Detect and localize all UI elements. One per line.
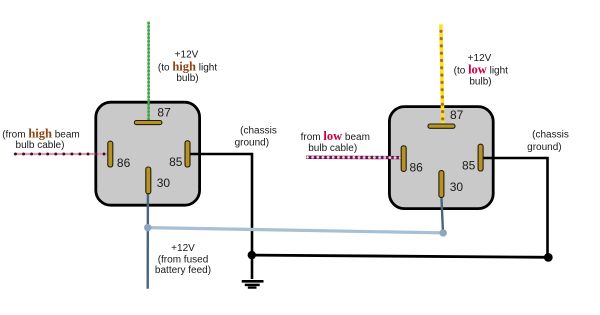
label: from low beam bulb cable [301,129,370,154]
svg-text:from low beam: from low beam [301,129,370,143]
wire: +12V feed bus (light blue horizontal) [148,228,444,233]
junction ground-left [248,251,256,259]
wire: K1 pin85 to chassis ground [189,154,252,279]
wire: K1 pin87 to high-beam bulb (green dashed) [148,22,150,121]
relay K1 (high beam) body [96,102,200,205]
wire: K2 pin30 drop (dark blue vertical) [441,196,443,233]
K1 pin 87 terminal [134,121,162,125]
label: +12V to high light bulb [158,50,217,85]
svg-text:(to low light: (to low light [454,63,509,77]
svg-text:(to high light: (to high light [158,60,217,74]
junction ground-right [544,253,553,262]
K2 pin 85 terminal [478,144,483,171]
svg-text:(from high beam: (from high beam [2,127,80,141]
svg-text:battery feed): battery feed) [155,265,211,276]
svg-text:(chassis: (chassis [532,129,569,140]
K2 pin 86 terminal [401,146,406,172]
svg-text:+12V: +12V [171,243,195,254]
wire: K1 pin30 battery feed (dark blue vertical) [146,193,149,289]
svg-text:85: 85 [462,159,476,173]
svg-text:86: 86 [410,161,424,175]
svg-text:ground): ground) [235,138,269,149]
svg-text:30: 30 [157,176,171,190]
label: +12V from fused battery feed [155,243,211,276]
svg-text:86: 86 [117,156,131,170]
label: from high beam bulb cable [2,127,80,151]
wire: from low beam bulb cable to K2 pin86 (purple w/ peach dots) [306,156,402,159]
svg-text:ground): ground) [527,142,561,153]
K2 pin 30 terminal [439,171,444,198]
junction feed-right [440,229,447,236]
label: +12V to low light bulb [454,53,509,88]
wire: K2 pin87 to low-beam bulb (yellow dotted) [439,24,444,124]
svg-text:30: 30 [450,180,464,194]
svg-text:87: 87 [157,105,171,119]
label: chassis ground (left) [235,126,277,149]
svg-text:bulb cable): bulb cable) [16,140,65,151]
wire: ground bus (bottom black) [252,255,550,257]
ground symbol [242,281,264,287]
svg-text:85: 85 [169,155,183,169]
svg-text:87: 87 [450,108,464,122]
svg-text:bulb): bulb) [176,73,198,84]
K1 pin 30 terminal [146,167,151,194]
wire: K2 pin85 to bottom ground bus [482,158,548,257]
svg-text:(chassis: (chassis [240,126,277,137]
K1 pin 85 terminal [185,141,190,167]
svg-text:bulb cable): bulb cable) [308,143,357,154]
wire: from high beam bulb cable to K1 pin86 (pink w/ navy dots) [14,153,110,156]
K1 pin 86 terminal [108,141,113,167]
junction feed-left [144,224,151,231]
relay K2 (low beam) body [389,107,493,209]
K2 pin 87 terminal [428,124,455,128]
svg-text:bulb): bulb) [469,77,491,88]
label: chassis ground (right) [527,129,569,153]
